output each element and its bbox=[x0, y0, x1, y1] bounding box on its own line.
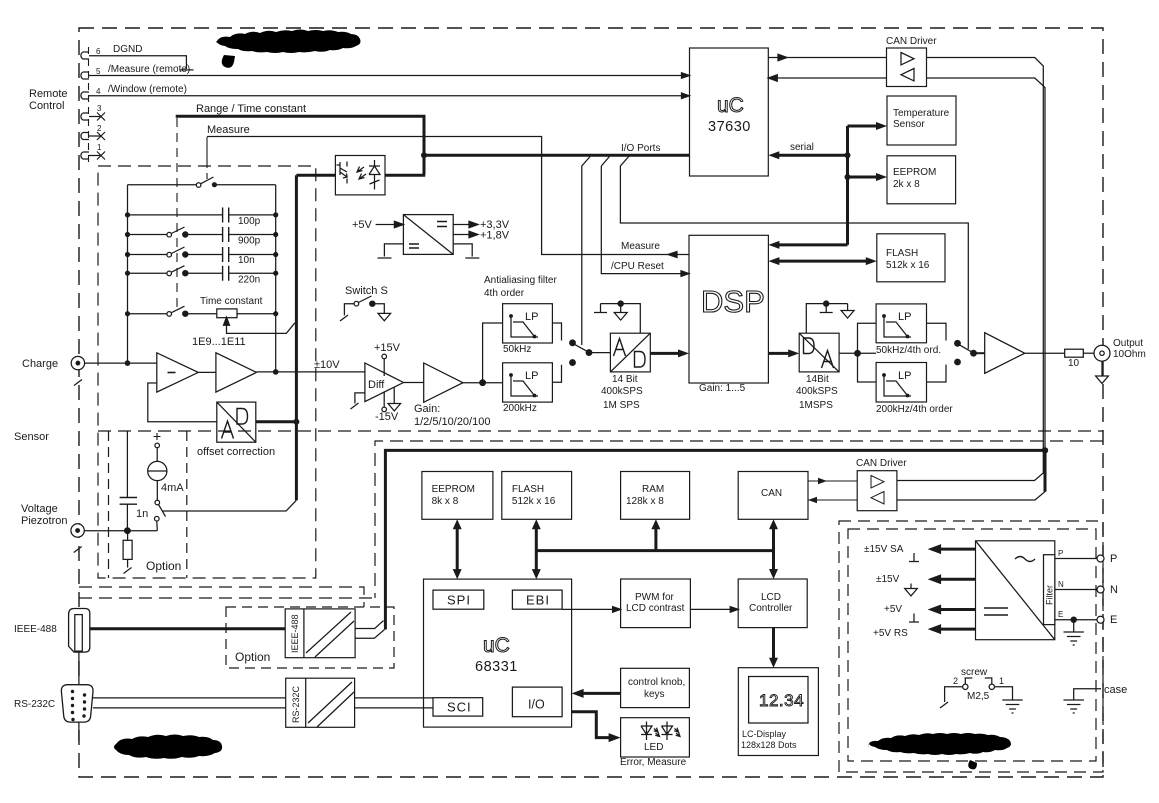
output switch contact 1 bbox=[955, 341, 961, 347]
svg-text:128x128 Dots: 128x128 Dots bbox=[741, 740, 797, 750]
RAM arrow stem bbox=[654, 525, 657, 551]
DSP-FLASH arrowhead left bbox=[768, 257, 779, 265]
svg-text:Control: Control bbox=[29, 100, 64, 112]
svg-text:SCI: SCI bbox=[447, 700, 472, 715]
A1 to A2 wire bbox=[198, 371, 216, 373]
D/A clamp ground stem bbox=[847, 304, 849, 311]
svg-text:2k x 8: 2k x 8 bbox=[893, 179, 920, 190]
power converter AC tilde bbox=[1015, 557, 1035, 562]
screw circle 1 bbox=[989, 684, 994, 689]
svg-text:DGND: DGND bbox=[113, 44, 142, 55]
svg-text:10n: 10n bbox=[238, 255, 255, 266]
svg-text:+5V: +5V bbox=[884, 604, 902, 615]
output amp input wire bbox=[974, 352, 985, 354]
output switch contact 2 bbox=[955, 359, 961, 365]
220n switch dot bbox=[183, 271, 188, 276]
svg-text:Voltage: Voltage bbox=[21, 503, 58, 515]
I/O box bbox=[512, 687, 562, 717]
svg-text:1n: 1n bbox=[136, 508, 148, 520]
CAN Driver bottom box bbox=[857, 471, 897, 511]
svg-text:control knob,: control knob, bbox=[628, 677, 685, 688]
Filter sub-box bbox=[1044, 555, 1055, 625]
svg-text:Gain: 1...5: Gain: 1...5 bbox=[699, 383, 746, 394]
-15V stem bbox=[383, 392, 385, 407]
svg-text:1: 1 bbox=[97, 143, 102, 152]
svg-text:±10V: ±10V bbox=[314, 359, 340, 371]
CAN bus line B to right bbox=[897, 78, 1045, 500]
/CPU Reset diagonal from bus bbox=[601, 157, 609, 167]
DSP to D/A heavy wire bbox=[768, 352, 793, 355]
svg-text:P: P bbox=[1110, 553, 1117, 565]
junction dot serial at uC line bbox=[845, 152, 851, 158]
frame link below DB9 bbox=[78, 722, 80, 741]
interface section dashed divider upper bbox=[79, 587, 364, 607]
svg-text:68331: 68331 bbox=[475, 659, 518, 675]
pin 4 connector symbol bbox=[81, 92, 101, 99]
Diff to gain amp wire bbox=[404, 382, 424, 384]
RS-232 module to SCI wire 1 bbox=[355, 697, 433, 699]
svg-text:uC: uC bbox=[717, 94, 744, 117]
900p row wire bbox=[128, 234, 276, 236]
svg-text:4: 4 bbox=[96, 87, 101, 96]
svg-text:SPI: SPI bbox=[447, 593, 471, 608]
4mA control wire to bus bbox=[162, 500, 296, 511]
optocoupler input heavy wire bbox=[296, 174, 335, 177]
screw earth ground bbox=[1002, 700, 1022, 713]
arrowhead RAM up bbox=[651, 519, 660, 529]
RAM 128k x 8 box bbox=[621, 472, 690, 520]
Switch S ground triangle bbox=[378, 313, 391, 320]
svg-text:P: P bbox=[1058, 549, 1063, 558]
svg-text:2: 2 bbox=[97, 124, 102, 133]
svg-text:LCD: LCD bbox=[761, 592, 781, 603]
IEEE-488 module output upper wire bbox=[355, 621, 383, 629]
LC-Display outer box bbox=[738, 668, 818, 756]
DC/DC converter box bbox=[403, 215, 453, 255]
+1,8V arrowhead bbox=[469, 231, 478, 237]
svg-text:/CPU Reset: /CPU Reset bbox=[611, 261, 664, 272]
reset switch row wire bbox=[128, 184, 276, 186]
PWM for LCD contrast box bbox=[621, 579, 691, 628]
svg-text:-15V: -15V bbox=[375, 411, 399, 423]
Measure arrowhead pointing left near DSP bbox=[668, 252, 677, 258]
Switch S left contact bbox=[354, 301, 359, 306]
svg-text:IEEE-488: IEEE-488 bbox=[14, 624, 57, 635]
junction dot rail R 100p bbox=[273, 212, 278, 217]
junction dot I/O ports branch bbox=[421, 152, 427, 158]
svg-text:220n: 220n bbox=[238, 275, 260, 286]
control knob arrow wire bbox=[578, 692, 621, 695]
SPI box bbox=[433, 590, 484, 609]
svg-text:37630: 37630 bbox=[708, 119, 751, 135]
svg-text:Range / Time constant: Range / Time constant bbox=[196, 103, 306, 115]
svg-text:CAN Driver: CAN Driver bbox=[856, 458, 907, 469]
FLASH 512k x 16 box (lower) bbox=[502, 472, 572, 520]
A/D converter box bbox=[610, 333, 650, 372]
output connector ground stem bbox=[1101, 361, 1103, 376]
CAN bus line A to right bbox=[897, 58, 1043, 481]
10n row wire bbox=[128, 254, 276, 256]
+5V arrowhead bbox=[394, 221, 403, 227]
DB9 pins bbox=[71, 690, 86, 721]
svg-text:±15V: ±15V bbox=[876, 574, 900, 585]
sensor option dashed box left edge bbox=[108, 431, 110, 578]
100p row wire bbox=[128, 214, 276, 216]
arrowhead 5V bbox=[928, 605, 942, 615]
redaction blob top bbox=[216, 30, 361, 68]
N output wire bbox=[1055, 589, 1097, 591]
A/D letter D bbox=[635, 352, 646, 368]
CAN double arrow stem bbox=[772, 525, 775, 574]
svg-text:14 Bit: 14 Bit bbox=[612, 374, 638, 385]
/Measure (remote) wire to uC37630 bbox=[101, 75, 685, 77]
LP filter 1 (50kHz) box bbox=[503, 304, 553, 343]
svg-text:CAN: CAN bbox=[761, 488, 782, 499]
E output wire bbox=[1055, 619, 1097, 621]
LCD Controller box bbox=[738, 579, 807, 628]
junction dot rail R 220n bbox=[273, 271, 278, 276]
amp A1 minus sign bbox=[168, 372, 176, 374]
time constant control arrow stem bbox=[227, 322, 295, 333]
svg-text:Option: Option bbox=[146, 559, 181, 573]
DC/DC AC-side equals bbox=[437, 222, 447, 227]
220n row wire bbox=[128, 272, 276, 274]
A/D to DSP heavy wire bbox=[650, 352, 683, 355]
heavy system bus to IEEE option bbox=[385, 450, 1045, 629]
DGND wire bbox=[101, 56, 186, 69]
arrowhead into PWM bbox=[613, 607, 621, 613]
IEEE-488 connector shell bbox=[69, 609, 90, 653]
plus terminal circle bbox=[155, 443, 160, 448]
Diff amp triangle bbox=[365, 363, 404, 402]
power section inner dashed box bbox=[848, 529, 1096, 761]
screw circle 2 bbox=[963, 684, 968, 689]
svg-text:PWM for: PWM for bbox=[635, 592, 675, 603]
RS-232 wire 2 to module bbox=[93, 707, 286, 709]
junction dot rail R 10n bbox=[273, 252, 278, 257]
D/A clamp rail bbox=[806, 304, 847, 334]
output wire to resistor bbox=[1025, 352, 1065, 354]
junction dot E ground bbox=[1071, 617, 1076, 622]
svg-text:I/O Ports: I/O Ports bbox=[621, 143, 660, 154]
junction dot output filter input bbox=[855, 351, 861, 357]
E terminal circle bbox=[1097, 616, 1104, 623]
svg-text:screw: screw bbox=[961, 667, 988, 678]
A2 output wire (plus/minus 10V) bbox=[257, 371, 365, 373]
svg-text:Measure: Measure bbox=[207, 124, 250, 136]
svg-text:N: N bbox=[1110, 584, 1118, 596]
10n switch dot bbox=[183, 252, 188, 257]
+-15V SA supply wire bbox=[936, 548, 976, 551]
svg-text:LC-Display: LC-Display bbox=[742, 729, 787, 739]
Diff left ground bbox=[351, 393, 365, 409]
svg-text:4th order: 4th order bbox=[484, 288, 525, 299]
D/A output wire bbox=[839, 352, 876, 354]
/Window (remote) wire to uC37630 bbox=[101, 95, 685, 97]
offset correction heavy wire bbox=[256, 420, 298, 423]
svg-text:Option: Option bbox=[235, 650, 270, 664]
+15V supply circle bbox=[382, 354, 387, 359]
arrowhead into LCD Controller bbox=[730, 607, 738, 613]
screw lead right bbox=[995, 687, 1013, 700]
arrowhead 15V SA bbox=[928, 544, 942, 554]
svg-text:50kHz/4th ord.: 50kHz/4th ord. bbox=[876, 345, 941, 356]
+5V RS supply wire bbox=[936, 628, 976, 631]
offset correction box diagonal bbox=[217, 402, 256, 442]
svg-text:LCD contrast: LCD contrast bbox=[626, 603, 685, 614]
output series resistor 10 bbox=[1065, 349, 1084, 357]
junction dot output node bbox=[273, 369, 279, 375]
P output wire bbox=[1055, 558, 1097, 560]
+5V supply wire bbox=[936, 608, 976, 611]
resistor top lead bbox=[127, 531, 129, 541]
D/A converter box bbox=[799, 333, 839, 372]
+1,8V output wire bbox=[453, 234, 470, 236]
svg-text:1E9...1E11: 1E9...1E11 bbox=[192, 336, 246, 348]
reset switch right dot bbox=[212, 182, 217, 187]
svg-text:5: 5 bbox=[96, 67, 101, 76]
power converter DC equals bbox=[984, 608, 1008, 615]
junction dot offset correction bus bbox=[293, 419, 299, 425]
cap bank left rail bbox=[127, 185, 129, 363]
arrowhead 5V RS bbox=[928, 624, 942, 634]
A/D input wire bbox=[589, 352, 610, 354]
case earth ground bbox=[1064, 700, 1084, 713]
4mA switch lower lead bbox=[156, 521, 159, 531]
+5V input wire bbox=[376, 224, 398, 226]
svg-text:RAM: RAM bbox=[642, 484, 664, 495]
svg-text:+5V RS: +5V RS bbox=[873, 628, 908, 639]
svg-text:Switch S: Switch S bbox=[345, 285, 388, 297]
junction dot rail R TC bbox=[273, 311, 278, 316]
junction dot rail L 100p bbox=[125, 212, 130, 217]
1n series capacitor plates bbox=[120, 498, 137, 505]
frame link wire between connectors bbox=[78, 652, 80, 685]
output switch blade bbox=[959, 344, 973, 352]
+15V stem bbox=[383, 359, 385, 376]
piezotron input rail lower bbox=[126, 504, 128, 531]
gain amp triangle bbox=[424, 363, 463, 402]
PWM to LCD Controller wire bbox=[690, 608, 732, 610]
junction dot heavy bus / CAN line bbox=[1042, 447, 1048, 453]
/Window arrowhead into uC bbox=[682, 93, 690, 99]
A/D clamp T symbol bbox=[594, 304, 607, 313]
junction dot piezotron node bbox=[125, 528, 131, 534]
junction dot rail L 10n bbox=[125, 252, 130, 257]
P terminal circle bbox=[1097, 555, 1104, 562]
RS-232C isolation module box bbox=[286, 678, 355, 727]
svg-text:Error, Measure: Error, Measure bbox=[620, 757, 687, 768]
gain amp output wire bbox=[463, 382, 503, 384]
E ground stem bbox=[1073, 620, 1075, 632]
svg-text:512k x 16: 512k x 16 bbox=[512, 496, 556, 507]
svg-text:512k x 16: 512k x 16 bbox=[886, 260, 930, 271]
power converter diagonal bbox=[976, 541, 1055, 640]
LP3 output wire bbox=[927, 323, 947, 340]
FLASH double arrow stem bbox=[535, 525, 538, 574]
LP2 response glyph bbox=[511, 375, 538, 396]
svg-text:N: N bbox=[1058, 580, 1064, 589]
RS-232C module divider bbox=[305, 678, 307, 727]
100p capacitor bbox=[223, 208, 229, 223]
DC/DC right ground bbox=[453, 244, 479, 258]
wire resistor to connector bbox=[1083, 352, 1094, 354]
Diff ground triangle bbox=[388, 404, 401, 411]
900p capacitor bbox=[223, 227, 229, 242]
LCD display arrow stem bbox=[772, 628, 775, 662]
heavy memory bus horizontal bbox=[457, 525, 773, 662]
time constant switch contact bbox=[167, 312, 172, 317]
D/A clamp ground triangle bbox=[841, 311, 854, 319]
analog section dashed border bbox=[98, 166, 316, 578]
IEEE-488 heavy wire to module bbox=[90, 627, 285, 630]
svg-text:serial: serial bbox=[790, 142, 814, 153]
A/D letter A bbox=[614, 339, 626, 357]
time constant control arrowhead bbox=[224, 317, 230, 325]
DSP-FLASH arrowhead right bbox=[866, 257, 877, 265]
A/D clamp rail bbox=[601, 304, 641, 334]
svg-text:LP: LP bbox=[898, 311, 911, 323]
cap bank right rail bbox=[275, 185, 277, 314]
svg-text:offset correction: offset correction bbox=[197, 446, 275, 458]
case wire bbox=[1074, 689, 1101, 700]
D/A letter A bbox=[822, 351, 834, 369]
serial branch to Temperature Sensor bbox=[848, 125, 881, 128]
Switch S right dot bbox=[370, 301, 375, 306]
4mA switch blade bbox=[159, 505, 166, 517]
power heavy arrows bbox=[936, 549, 976, 629]
screw bracket left bbox=[965, 678, 972, 684]
svg-text:Measure: Measure bbox=[621, 241, 660, 252]
analog section dashed border bottom bbox=[98, 430, 1103, 432]
reset switch contact circle bbox=[196, 183, 201, 188]
junction dot rail L TC bbox=[125, 311, 130, 316]
optocoupler output heavy wire bbox=[385, 174, 425, 177]
offset feedback wire bbox=[148, 383, 217, 422]
junction dot filter input bbox=[480, 380, 486, 386]
svg-text:/Window (remote): /Window (remote) bbox=[108, 84, 187, 95]
DSP to D/A arrowhead bbox=[788, 349, 799, 357]
svg-text:LP: LP bbox=[898, 370, 911, 382]
filter switch contact 1 bbox=[570, 340, 576, 346]
svg-text:keys: keys bbox=[644, 689, 665, 700]
svg-text:Filter: Filter bbox=[1045, 585, 1055, 605]
arrowhead 15V bbox=[928, 574, 942, 584]
Temperature Sensor box bbox=[887, 96, 956, 145]
svg-text:M2,5: M2,5 bbox=[967, 691, 990, 702]
serial vertical bus bbox=[846, 126, 849, 245]
output ground triangle bbox=[1096, 376, 1109, 384]
svg-text:200kHz/4th order: 200kHz/4th order bbox=[876, 404, 953, 415]
svg-text:14Bit: 14Bit bbox=[806, 374, 829, 385]
Diff right ground stem bbox=[393, 387, 395, 404]
LP4 response glyph bbox=[884, 375, 911, 396]
heavy bus vertical left bbox=[385, 450, 1045, 629]
Measure wire (remote, long) bbox=[207, 137, 689, 255]
optocoupler phototransistor bbox=[337, 162, 348, 184]
A/D diagonal bbox=[610, 333, 650, 372]
sensor option dashed box right edge bbox=[186, 431, 188, 578]
output filter rail up bbox=[858, 323, 877, 353]
4mA switch top contact bbox=[155, 500, 160, 505]
pin 5 connector symbol bbox=[81, 72, 101, 79]
IEEE-488 module divider bbox=[303, 609, 305, 658]
amp A2 triangle bbox=[216, 353, 257, 392]
svg-text:100p: 100p bbox=[238, 216, 261, 227]
output switch pivot dot bbox=[971, 350, 977, 356]
+-15V supply wire bbox=[936, 578, 976, 581]
LED box bbox=[621, 718, 690, 757]
-15V supply circle bbox=[382, 407, 387, 412]
resistor ground tick bbox=[124, 568, 132, 574]
DSP box bbox=[689, 235, 768, 383]
+3,3V output wire bbox=[453, 224, 470, 226]
svg-text:Antialiasing filter: Antialiasing filter bbox=[484, 275, 557, 286]
D/A clamp dot bbox=[824, 301, 829, 306]
D/A clamp T symbol bbox=[820, 304, 833, 313]
svg-text:200kHz: 200kHz bbox=[503, 403, 537, 414]
RS-232C DB9 connector shell bbox=[61, 685, 93, 722]
output amp triangle bbox=[985, 333, 1025, 374]
Switch S left lead bbox=[340, 304, 354, 321]
pin 3 connector symbol bbox=[81, 113, 101, 120]
Switch S right lead bbox=[375, 304, 384, 314]
redaction blob bottom-right bbox=[868, 733, 1011, 769]
analog control heavy drop wire bbox=[295, 175, 298, 500]
svg-text:50kHz: 50kHz bbox=[503, 344, 531, 355]
optocoupler light arrows bbox=[357, 167, 366, 180]
pin 6 connector symbol bbox=[81, 52, 101, 59]
arrowhead CAN RX bbox=[808, 497, 817, 503]
Diff input wire joins at left edge bbox=[364, 371, 366, 373]
piezotron wire bbox=[84, 530, 157, 532]
serial arrowhead into DSP bbox=[768, 241, 779, 249]
CAN driver RX triangle bbox=[901, 69, 914, 81]
charge connector chassis tick bbox=[74, 380, 82, 386]
svg-text:+15V: +15V bbox=[374, 342, 401, 354]
DSP to FLASH double arrow bbox=[774, 260, 871, 263]
svg-text:10: 10 bbox=[1068, 358, 1080, 369]
serial branch to EEPROM bbox=[848, 176, 881, 179]
svg-text:CAN Driver: CAN Driver bbox=[886, 36, 937, 47]
A/D clamp dot bbox=[618, 301, 623, 306]
Output connector bbox=[1094, 345, 1110, 361]
svg-text:1MSPS: 1MSPS bbox=[799, 400, 833, 411]
svg-text:LP: LP bbox=[525, 311, 538, 323]
junction dot input node bbox=[125, 360, 131, 366]
pin 2 not-connected X bbox=[97, 132, 105, 140]
svg-text:EEPROM: EEPROM bbox=[432, 484, 475, 495]
IEEE-488 isolation module box bbox=[285, 609, 355, 658]
time constant resistor R bbox=[217, 309, 237, 318]
RS-232 module to SCI wire 2 bbox=[355, 707, 433, 709]
measure control drop line (dashed part) bbox=[206, 162, 208, 182]
arrowhead EEPROM up bbox=[453, 519, 462, 529]
offset correction letter A bbox=[222, 421, 234, 439]
svg-text:+1,8V: +1,8V bbox=[480, 230, 510, 242]
plus sign bbox=[154, 433, 161, 440]
EBI to PWM wire bbox=[562, 608, 615, 610]
serial branch to DSP bbox=[776, 243, 848, 246]
svg-text:LED: LED bbox=[644, 742, 663, 753]
screw lead left bbox=[940, 687, 963, 708]
serial arrowhead into uC bbox=[768, 151, 779, 159]
10n switch contact bbox=[167, 252, 172, 257]
svg-text:case: case bbox=[1104, 684, 1127, 696]
optocoupler U-opto box bbox=[335, 156, 385, 195]
serial arrowhead into Temperature Sensor bbox=[876, 122, 887, 130]
IEEE-488 connector slot bbox=[75, 615, 83, 652]
